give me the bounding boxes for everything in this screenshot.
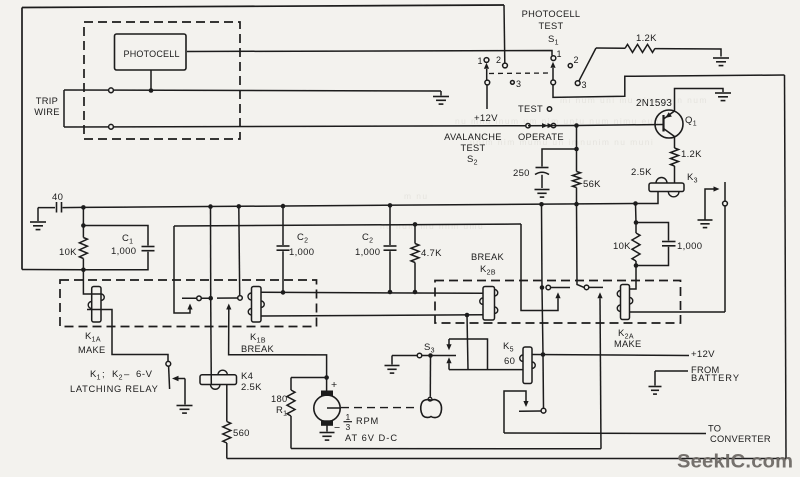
relay contact K2B [483, 287, 495, 321]
svg-text:S1: S1 [548, 34, 559, 47]
node junction +12V/K5 [541, 352, 546, 357]
svg-text:40: 40 [52, 192, 63, 203]
wire S3 lower loop [448, 363, 450, 369]
relay coil K3 [649, 183, 684, 192]
node bus1 junction 56K [574, 202, 579, 207]
wire 560 to bottom bus [226, 443, 228, 459]
wire 1.2K to K3 coil [674, 166, 676, 183]
node bus1 junction K1B-1 [208, 204, 213, 209]
ground 250 cap [535, 189, 550, 191]
svg-text:1.2K: 1.2K [681, 149, 702, 160]
node bus1 junction K3 [633, 201, 638, 206]
svg-text:+12V: +12V [691, 349, 715, 360]
svg-text:1,000: 1,000 [677, 241, 702, 252]
svg-text:2: 2 [496, 55, 501, 65]
switch S1 left pole contact 1 [484, 58, 489, 63]
switch S1 left pole contact 2 [503, 63, 508, 68]
svg-text:K1B: K1B [250, 332, 266, 345]
node junction 10K/C1 top [81, 223, 86, 228]
svg-text:PHOTOCELL: PHOTOCELL [522, 9, 581, 19]
wire outer enclosure left edge [21, 8, 23, 270]
resistor 10K left [82, 226, 84, 238]
wire 250 ground lead [541, 175, 543, 188]
wire 1000 cap bottom branch [636, 247, 669, 266]
node bus1 junction 40pF [81, 205, 86, 210]
wire tank to K2A contact [630, 266, 637, 290]
capacitor 1000 right [662, 241, 676, 243]
switch S1 left pole contact 3 [511, 81, 515, 85]
svg-text:m nu: m nu [404, 191, 429, 201]
relay coil K5 [523, 347, 532, 384]
svg-text:–: – [124, 369, 130, 380]
switch S1 right pole contact 3 [575, 81, 580, 86]
wire dashed cam link [341, 407, 419, 409]
terminal circle K2B fixed2 [584, 285, 589, 290]
switch S1 right pole wiper [550, 62, 555, 68]
node junction C1 bottom [81, 268, 86, 273]
svg-text:BREAK: BREAK [241, 344, 275, 354]
terminal circle S3 [417, 353, 422, 358]
svg-text:2N1593: 2N1593 [636, 98, 672, 109]
wire to resistor 1.2K top [596, 47, 625, 49]
svg-text:OPERATE: OPERATE [518, 132, 564, 142]
switch latching reset blade [169, 366, 170, 389]
wire K1B to K2B upper [261, 292, 483, 293]
svg-text:K2B: K2B [480, 264, 496, 277]
svg-text:MAKE: MAKE [614, 339, 642, 349]
transistor Q1 [655, 110, 683, 138]
relay contact K2A [621, 285, 630, 320]
wire outer enclosure bottom segment to C1 node [22, 269, 83, 271]
wire bus1 [83, 204, 635, 208]
svg-text:K1A: K1A [85, 331, 101, 344]
svg-text:AT 6V D-C: AT 6V D-C [345, 433, 398, 443]
svg-text:TEST: TEST [539, 21, 564, 31]
wire 56K top lead [576, 126, 578, 172]
wire bus2 to K1B arrow1 [174, 226, 190, 313]
wire C2b lower lead [389, 251, 391, 292]
wire trip bracket [63, 90, 65, 127]
wire K1A out lead [87, 310, 168, 362]
wire motor top lead [326, 378, 328, 392]
wire K1B arrow2 to motor [229, 310, 327, 378]
wire motor ground lead [326, 425, 328, 431]
resistor 10K right [635, 223, 637, 234]
node junction motor top [324, 375, 329, 380]
relay contact K1B [252, 287, 262, 323]
ground 1.2K top [713, 57, 729, 59]
node junction 250 branch [574, 147, 579, 152]
svg-text:180: 180 [271, 394, 287, 404]
relay K1 contacts dashed box [60, 280, 317, 327]
relay coil K4 [200, 375, 237, 385]
ground 40 cap [30, 221, 46, 223]
wire K2B moving1 feed [521, 224, 558, 311]
capacitor 250 [536, 167, 549, 169]
svg-text:+12V: +12V [474, 113, 498, 124]
wire +12V from battery [532, 355, 689, 356]
arrow latching reset [172, 376, 179, 382]
terminal circle K1B fixed1 [197, 296, 202, 301]
wire K2B moving2 to bus [600, 298, 601, 449]
wire C2a lower lead [282, 251, 284, 292]
switch S2 operate contacts [526, 124, 530, 128]
photocell unit dashed box [84, 22, 240, 139]
svg-text:;: ; [102, 369, 105, 380]
wire to converter [504, 432, 706, 435]
wire K2B fixed2 line [589, 286, 603, 288]
wire bus1 to K1B fixed1 [210, 207, 212, 299]
resistor 1.2K emitter [671, 148, 679, 166]
wire K2B fixed1 line [551, 287, 570, 289]
svg-text:1: 1 [557, 49, 562, 59]
node bus1 junction 250cap [539, 202, 544, 207]
motor M1 [322, 391, 333, 396]
wire photocell output [187, 51, 552, 56]
switch latching reset terminal [166, 361, 171, 366]
svg-text:560: 560 [233, 428, 250, 439]
svg-text:nu num mu nnm umu: nu num mu nnm umu [380, 221, 484, 231]
photocell box [115, 34, 187, 70]
wire motor R1 branch [291, 377, 327, 379]
wire K2B lower to K5 loop [467, 315, 468, 370]
svg-text:S3: S3 [424, 342, 435, 355]
relay contact K1A [92, 287, 101, 323]
wire bus1 to K1B fixed2 [238, 206, 241, 295]
wire 1000 cap top branch [636, 223, 669, 241]
arrow K1B moving2 [226, 304, 231, 310]
wire C1 top branch [83, 226, 148, 246]
capacitor C1 [142, 246, 155, 248]
wire main operate line left [64, 126, 528, 127]
capacitor 40 left wire [38, 207, 55, 209]
svg-text:4.7K: 4.7K [421, 248, 442, 259]
wire outer enclosure top edge [22, 5, 504, 8]
svg-text:2.5K: 2.5K [241, 382, 262, 393]
svg-text:K1: K1 [90, 369, 101, 382]
wire K3 coil out [636, 192, 659, 204]
wire K1B fixed1 line [182, 297, 209, 299]
svg-text:3: 3 [582, 80, 587, 90]
ground K3 contact [698, 219, 713, 221]
svg-text:RPM: RPM [356, 416, 379, 426]
terminal circle K5 fixed [541, 408, 546, 413]
svg-text:1.2K: 1.2K [636, 33, 657, 44]
capacitor C2b [384, 245, 397, 247]
svg-text:10K: 10K [613, 241, 631, 252]
svg-text:C1: C1 [122, 233, 133, 246]
capacitor 40 [56, 202, 58, 213]
switch S1 right pole contact 1 [551, 56, 556, 61]
svg-text:K2: K2 [112, 369, 123, 382]
svg-text:1: 1 [478, 56, 483, 66]
node junction S3 [428, 353, 433, 358]
wire S1 contact3 diagonal [579, 48, 596, 81]
arrow K3 contact [714, 186, 720, 191]
node junction right tank top [634, 220, 639, 225]
svg-text:TEST: TEST [518, 104, 543, 114]
wire 250 branch [542, 149, 577, 167]
svg-text:R1: R1 [276, 405, 287, 418]
wire operate line right [528, 125, 577, 127]
wire K3 contact bar [724, 182, 726, 312]
wire S1 right pivot to emitter net [553, 75, 785, 97]
svg-text:2: 2 [574, 55, 579, 65]
svg-text:C2: C2 [297, 232, 308, 245]
wire K4 to 560 [226, 385, 228, 422]
wire K1B fixed2 line [217, 297, 238, 299]
wire S1 border drop to contact 2 [503, 5, 506, 63]
wire K1B fixed1 to K4 [210, 298, 213, 384]
node junction 4.7K lower [413, 290, 418, 295]
arrow K2B moving2 [597, 292, 602, 298]
svg-text:PHOTOCELL: PHOTOCELL [124, 49, 180, 59]
terminal circle trip lower [109, 124, 114, 129]
arrow K2B moving1 [555, 292, 560, 298]
wire latching reset ground lead [184, 379, 186, 405]
svg-text:250: 250 [513, 168, 530, 179]
svg-text:SeekIC.com: SeekIC.com [677, 451, 793, 472]
svg-text:C2: C2 [362, 232, 373, 245]
svg-text:−: − [334, 422, 340, 434]
arrow K1B moving1 [187, 304, 192, 310]
svg-text:TO: TO [708, 424, 721, 434]
switch S1 gang dashed link [489, 72, 551, 75]
svg-text:1,000: 1,000 [111, 246, 136, 257]
terminal circle cam follower [428, 397, 432, 401]
svg-text:10K: 10K [59, 247, 77, 258]
ground Q1 emitter [715, 92, 731, 94]
wire right border [785, 75, 787, 459]
resistor 560 [223, 422, 231, 444]
wire collector lead [674, 137, 676, 149]
wire K5 fixed line [519, 410, 541, 412]
wire S3 upper loop [449, 339, 488, 370]
ground S3 [385, 365, 400, 367]
wire K1A in lead [83, 270, 101, 294]
wire K3 contact arm [705, 189, 714, 220]
svg-text:3: 3 [346, 422, 351, 432]
svg-text:LATCHING RELAY: LATCHING RELAY [70, 384, 159, 394]
wire R1 bus [291, 448, 601, 450]
wire trip upper [64, 90, 441, 91]
svg-text:TEST: TEST [461, 143, 486, 153]
wire emitter to ground net [675, 89, 724, 111]
svg-text:+: + [331, 379, 337, 391]
wire K2A out to right [630, 311, 726, 313]
wire K5 moving feed [504, 391, 526, 433]
wire S3 to cam [429, 356, 431, 397]
wire Q1 base [577, 125, 664, 126]
node junction K2B fixed1 [540, 285, 545, 290]
ground battery stub [655, 370, 688, 372]
ground trip-wire line [440, 91, 442, 96]
wire bottom bus [227, 458, 786, 460]
node bus1 junction C2a [281, 204, 286, 209]
ground latching reset [177, 405, 193, 407]
node junction base/56K [574, 123, 579, 128]
resistor 4.7K [414, 224, 416, 243]
svg-text:MAKE: MAKE [78, 345, 106, 355]
wire K1B to K2B lower [261, 315, 483, 316]
resistor 180 R1 [290, 378, 292, 391]
wire S3 ground lead [391, 356, 393, 365]
svg-text:WIRE: WIRE [34, 107, 59, 117]
wire bus2 [174, 224, 521, 226]
node junction K5 feed [465, 313, 470, 318]
wire 40 cap ground lead [37, 208, 39, 221]
switch S1 right pole contact 2 [568, 64, 572, 68]
wire 1.2K to ground [655, 49, 721, 57]
svg-text:AVALANCHE: AVALANCHE [444, 132, 502, 142]
svg-text:TRIP: TRIP [36, 96, 58, 106]
cam wheel [421, 400, 442, 418]
terminal circle K3 contact [723, 201, 728, 206]
svg-text:K4: K4 [241, 371, 253, 382]
svg-text:CONVERTER: CONVERTER [710, 434, 771, 444]
wire +12V distribution vertical [542, 204, 544, 408]
svg-text:56K: 56K [583, 179, 601, 190]
svg-text:K5: K5 [503, 341, 514, 354]
ground battery [649, 386, 662, 388]
switch S1 left pole wiper [484, 63, 489, 69]
capacitor 40 right wire [63, 206, 84, 208]
svg-text:2.5K: 2.5K [631, 167, 652, 178]
relay K2 contacts dashed box [435, 281, 681, 324]
terminal circle trip upper [109, 88, 114, 93]
resistor 1.2K top [625, 44, 655, 52]
svg-text:1,000: 1,000 [355, 247, 380, 258]
node junction K1B fixed1 [208, 296, 213, 301]
node bus2 junction 4.7K [413, 222, 418, 227]
capacitor C2a [277, 245, 290, 247]
ground motor [320, 432, 335, 434]
wire photocell bottom lead [150, 70, 152, 91]
node junction C2b lower [388, 290, 393, 295]
wire +12V stub S1 left pole [486, 85, 488, 109]
svg-text:S2: S2 [467, 154, 478, 167]
node junction C2a lower [281, 290, 286, 295]
svg-text:1: 1 [346, 412, 351, 422]
svg-text:BATTERY: BATTERY [691, 373, 740, 383]
svg-text:1,000: 1,000 [289, 247, 314, 258]
wire C2b upper lead [389, 205, 391, 245]
node bus1 junction K1B-2 [237, 204, 242, 209]
svg-text:K3: K3 [687, 172, 698, 185]
wire S3 line [392, 355, 456, 357]
terminal circle K2B fixed1 [546, 285, 551, 290]
node bus1 junction C2b [388, 203, 393, 208]
wire bus1 to 10K [82, 207, 84, 225]
svg-text:3: 3 [516, 79, 521, 89]
wire bus1 down right tank [635, 204, 638, 223]
svg-text:60: 60 [504, 356, 515, 367]
arrow S3 lower [446, 357, 451, 363]
arrow K5 moving [523, 401, 528, 407]
arrow S3 upper [446, 344, 451, 350]
resistor 56K [573, 172, 581, 188]
terminal circle K1B fixed2 [238, 296, 243, 301]
wire 56K to K2B fixed2 [577, 204, 585, 287]
svg-text:6-V: 6-V [136, 369, 153, 380]
wire C2a upper lead [282, 206, 284, 245]
svg-text:BREAK: BREAK [471, 252, 505, 262]
wire C1 bottom branch [83, 252, 148, 270]
node junction photocell/trip [149, 88, 154, 93]
node junction right tank bottom [634, 263, 639, 268]
svg-text:Q1: Q1 [685, 115, 697, 128]
